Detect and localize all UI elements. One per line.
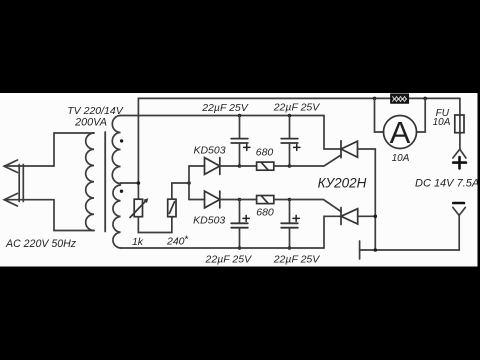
wire primary bottom [54,200,94,231]
svg-text:KD503: KD503 [193,145,225,157]
output minus terminal [453,203,466,250]
thyristor VS1 [341,141,358,158]
transformer secondary winding lower [113,185,121,248]
node cap C4 bottom junction [288,246,292,250]
svg-text:22µF 25V: 22µF 25V [205,254,253,266]
polarity dot upper [120,139,123,142]
node gate2 junction [288,198,292,202]
svg-text:22µF 25V: 22µF 25V [273,102,321,114]
resistor R2 240 [168,199,176,217]
wire gate2 to thyristor VS2 [290,200,342,212]
node cap C3 bottom junction [238,246,242,250]
capacitor C1 22uF [231,116,250,167]
wire bottom rail secondary [121,216,342,248]
wire VS2 anode [358,215,376,217]
capacitor C2 22uF [281,116,300,167]
wire center tap [121,182,139,184]
node diode2-cap3 junction [238,198,242,202]
transformer secondary winding upper [112,116,120,184]
node VS2 anode junction [374,215,378,219]
ammeter PA1 [384,115,417,150]
svg-text:200VA: 200VA [74,116,107,128]
wire 680 to gate junction [274,165,290,167]
wire ammeter right lead [417,98,426,132]
node center tap junction [137,181,141,185]
wire to 680 R3 [240,165,257,167]
svg-text:1k: 1k [132,236,144,248]
node cap C1 top junction [238,114,242,118]
node minus rail junction [374,248,378,252]
plug socket double lines [19,165,23,202]
svg-text:TV 220/14V: TV 220/14V [67,105,123,117]
svg-text:22µF 25V: 22µF 25V [273,254,321,266]
svg-text:10A: 10A [392,153,410,164]
shunt resistor RS [391,94,408,103]
wire output minus rail [360,249,460,251]
svg-text:DC 14V 7.5A: DC 14V 7.5A [415,177,479,189]
wire rail2 to VS1 cathode [324,116,341,150]
node cap C2 top junction [288,114,292,118]
resistor R4 680 [257,196,274,204]
wire to diode VD1 [189,165,205,167]
wire VD1 cathode [220,165,240,167]
wire diode anode common vertical [188,166,190,200]
capacitor C3 22uF [231,200,249,249]
svg-text:КУ202Н: КУ202Н [318,175,367,190]
output plus terminal [453,149,466,168]
svg-text:680: 680 [256,207,274,219]
node diode common junction [187,181,191,185]
svg-text:680: 680 [256,146,274,158]
diode VD1 KD503 [205,158,220,175]
node gate1 junction [288,164,292,168]
node ammeter left junction [373,97,377,101]
output minus rail end bar [359,241,361,259]
wire to 680 R4 [240,199,257,201]
wire rail1 center tap top rail [138,98,460,183]
transformer core [104,132,106,232]
svg-text:240: 240 [166,235,185,247]
wire VD2 cathode [220,199,240,201]
thyristor VS2 [341,208,358,225]
plug arrow top prong [4,160,54,173]
polarity dot lower [120,190,123,193]
wire ammeter left lead [375,98,384,132]
wire 240 top to diode common [172,183,189,199]
wire to diode VD2 [189,199,205,201]
wire VS1 anode [358,149,376,250]
fuse FU [455,98,464,149]
resistor R3 680 [257,162,274,170]
wire rheostat drop [137,183,139,199]
capacitor C4 22uF [281,200,299,249]
svg-text:A: A [390,115,411,150]
node ammeter right junction [423,97,427,101]
plug arrow bottom prong [4,193,54,206]
wire 680 to gate2 junction [274,199,290,201]
svg-text:AC 220V 50Hz: AC 220V 50Hz [5,238,77,250]
svg-text:10A: 10A [433,117,451,128]
wire primary top [54,133,94,166]
svg-text:KD503: KD503 [193,214,225,226]
wire gate1 to thyristor VS1 [290,155,342,166]
transformer primary winding [86,133,94,231]
wire rail2 secondary top rail [121,115,325,117]
node diode1-cap1 junction [238,164,242,168]
wire rheostat bottom to 240 bottom [138,217,172,233]
svg-text:22µF 25V: 22µF 25V [201,102,249,114]
resistor R1 1k rheostat [130,198,148,217]
diode VD2 KD503 [205,191,220,208]
